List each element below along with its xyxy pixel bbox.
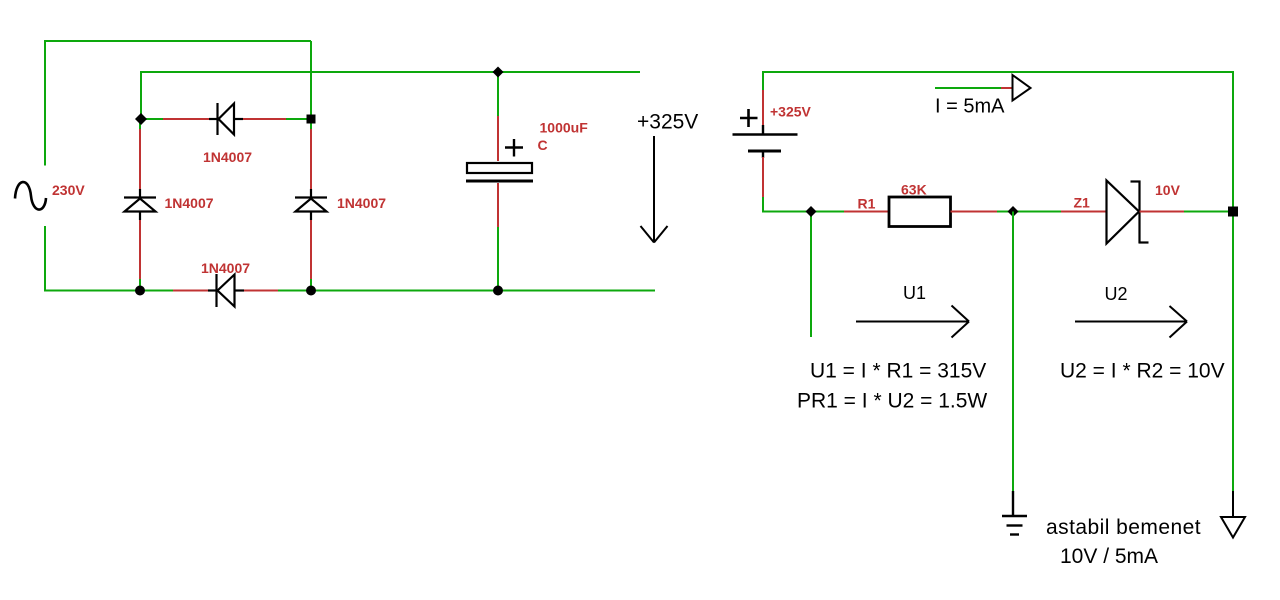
wire ground stub green bbox=[1012, 212, 1014, 492]
node capacitor bottom (dot) bbox=[493, 286, 503, 296]
svg-text:1N4007: 1N4007 bbox=[337, 195, 386, 211]
svg-text:I = 5mA: I = 5mA bbox=[935, 96, 1005, 118]
wire R1 row green left bbox=[811, 211, 845, 213]
wire top rail of AC loop bbox=[44, 40, 311, 42]
svg-text:U1: U1 bbox=[903, 283, 926, 303]
node B bridge top-right (square) bbox=[307, 115, 316, 124]
wire bridge right column green top bbox=[310, 119, 312, 130]
svg-text:astabil bemenet: astabil bemenet bbox=[1046, 516, 1201, 539]
wire capacitor branch green top bbox=[497, 72, 499, 117]
wire node stub down from left node bbox=[810, 212, 812, 338]
capacitor C 1000uF (electrolytic) bbox=[466, 139, 533, 181]
wire right vertical bbox=[1232, 71, 1234, 491]
ground bbox=[1002, 491, 1027, 535]
resistor R1 63K bbox=[889, 197, 951, 227]
diode D4 1N4007 (bottom, pointing left) bbox=[208, 274, 244, 307]
wire zener row green left bbox=[1013, 211, 1062, 213]
node R1-zener junction (diamond) bbox=[1008, 206, 1019, 217]
wire bridge bottom row green right bbox=[278, 290, 311, 292]
wire bridge left column green top bbox=[139, 119, 141, 130]
wire left vertical upper (green) bbox=[44, 41, 46, 166]
wire second top rail y=72 bbox=[141, 71, 640, 73]
svg-text:R1: R1 bbox=[858, 196, 876, 212]
svg-text:10V / 5mA: 10V / 5mA bbox=[1060, 545, 1158, 568]
arrow U2 bbox=[1075, 306, 1187, 338]
wire battery top red bbox=[762, 90, 764, 126]
svg-text:1N4007: 1N4007 bbox=[203, 149, 252, 165]
node A bridge top-left (diamond) bbox=[135, 113, 147, 125]
wire capacitor branch red top bbox=[497, 116, 499, 161]
svg-text:Z1: Z1 bbox=[1074, 195, 1091, 211]
wire zener row red right bbox=[1140, 211, 1185, 213]
wire corner drop to bridge top-left node bbox=[140, 71, 142, 119]
svg-text:+325V: +325V bbox=[637, 111, 698, 134]
current arrow I=5mA green segment bbox=[935, 87, 1001, 89]
wire R1 row red left bbox=[844, 211, 889, 213]
arrow U1 bbox=[856, 306, 969, 338]
wire bridge left column red top bbox=[139, 129, 141, 189]
zener diode Z1 10V bbox=[1107, 181, 1149, 244]
wire bridge right column green bottom bbox=[310, 279, 312, 291]
wire drop to bridge top-right bbox=[310, 41, 312, 119]
node bridge bottom-right (dot) bbox=[306, 286, 316, 296]
wire zener row red left bbox=[1061, 211, 1107, 213]
wire bridge left column green bottom bbox=[139, 279, 141, 291]
svg-text:PR1 = I * U2 = 1.5W: PR1 = I * U2 = 1.5W bbox=[797, 390, 987, 413]
diode D1 1N4007 (top, pointing left) bbox=[209, 103, 243, 135]
svg-text:63K: 63K bbox=[901, 182, 927, 198]
wire bridge bottom row red left bbox=[173, 290, 208, 292]
wire capacitor branch green bottom bbox=[497, 227, 499, 291]
wire bridge top row red right bbox=[243, 118, 286, 120]
wire bridge right column red top bbox=[310, 129, 312, 189]
wire bottom rail left part bbox=[44, 290, 140, 292]
AC source V1 230V sine symbol bbox=[15, 182, 46, 210]
wire battery bottom red bbox=[762, 157, 764, 198]
wire right top rail bbox=[762, 71, 1234, 73]
current arrow I=5mA head bbox=[1013, 75, 1031, 101]
node bridge bottom-left (dot) bbox=[135, 286, 145, 296]
current arrow I=5mA red segment bbox=[1001, 87, 1012, 89]
diode D2 1N4007 (left, pointing up) bbox=[124, 189, 156, 220]
diode D3 1N4007 (right, pointing up) bbox=[295, 189, 327, 220]
wire bridge top row green left bbox=[140, 118, 163, 120]
node battery output (diamond) bbox=[806, 206, 817, 217]
node capacitor top (diamond) bbox=[493, 67, 504, 78]
svg-text:C: C bbox=[538, 137, 548, 153]
wire R1 row red right bbox=[951, 211, 999, 213]
svg-text:10V: 10V bbox=[1155, 182, 1181, 198]
wire R1 row green right bbox=[997, 211, 1014, 213]
wire bridge left column red bottom bbox=[139, 220, 141, 280]
wire bottom rail right part bbox=[311, 290, 655, 292]
svg-text:1N4007: 1N4007 bbox=[201, 260, 250, 276]
arrow +325V pointing down bbox=[641, 136, 668, 243]
svg-text:230V: 230V bbox=[52, 182, 85, 198]
wire bridge top row red left bbox=[163, 118, 209, 120]
svg-text:1N4007: 1N4007 bbox=[165, 195, 214, 211]
wire battery bottom green corner to node bbox=[763, 197, 812, 212]
svg-text:+325V: +325V bbox=[770, 104, 812, 120]
wire bridge bottom row green left bbox=[140, 290, 173, 292]
svg-text:U2: U2 bbox=[1105, 284, 1128, 304]
svg-text:1000uF: 1000uF bbox=[540, 120, 589, 136]
battery B1 +325V bbox=[733, 109, 798, 158]
wire left vertical lower (green) bbox=[44, 226, 46, 291]
wire bridge bottom row red right bbox=[244, 290, 278, 292]
svg-text:U1 = I * R1 = 315V: U1 = I * R1 = 315V bbox=[810, 360, 986, 383]
wire capacitor branch red bottom bbox=[497, 183, 499, 228]
arrow output terminal down (open triangle) bbox=[1221, 491, 1245, 538]
node right rail (square) bbox=[1228, 207, 1238, 217]
wire bridge right column red bottom bbox=[310, 220, 312, 280]
svg-text:U2 = I * R2 = 10V: U2 = I * R2 = 10V bbox=[1060, 360, 1225, 383]
wire battery top green bbox=[762, 71, 764, 91]
wire bridge top row green right bbox=[286, 118, 311, 120]
wire zener row green right bbox=[1184, 211, 1233, 213]
